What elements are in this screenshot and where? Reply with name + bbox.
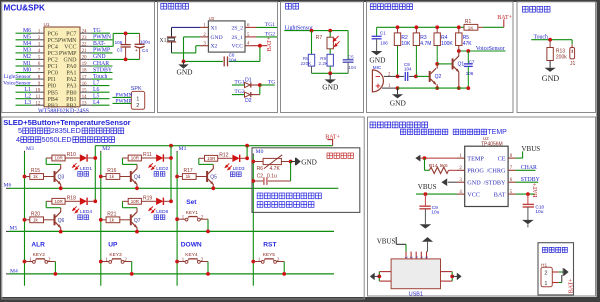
svg-text:VCC: VCC	[467, 191, 480, 198]
svg-text:TG: TG	[268, 79, 275, 85]
ground arrow up above USB	[422, 237, 433, 242]
resistor R16 1k	[99, 175, 103, 179]
wire U1 pin 16 net L7	[80, 85, 92, 87]
svg-text:2: 2	[544, 270, 547, 276]
led LED1	[65, 157, 80, 159]
svg-text:GND: GND	[177, 68, 194, 77]
ground GND under MIC pin1	[397, 88, 399, 94]
svg-text:Q7: Q7	[134, 218, 141, 224]
capacitor C7 106	[467, 51, 469, 64]
svg-text:+: +	[135, 48, 138, 53]
svg-text:14: 14	[82, 95, 87, 100]
svg-text:RST: RST	[263, 242, 276, 249]
wire LED cathode bus column3	[246, 146, 248, 158]
resistor R21 1k	[99, 218, 103, 222]
wire U1 pin 7 net M0	[16, 72, 32, 74]
resistor R4 100K	[434, 33, 440, 46]
svg-text:BAT-: BAT-	[93, 41, 105, 47]
svg-text:15: 15	[82, 88, 87, 93]
svg-text:PWMN: PWMN	[115, 92, 132, 98]
svg-text:1k: 1k	[109, 217, 115, 222]
svg-text:VBUS: VBUS	[522, 145, 541, 153]
svg-text:5050LED: 5050LED	[42, 135, 72, 144]
capacitor C5 104	[347, 31, 349, 60]
svg-text:LED6: LED6	[156, 209, 168, 215]
wire MIC pin2	[384, 75, 398, 77]
svg-text:5: 5	[18, 126, 22, 135]
ground GND oscillator	[183, 61, 185, 64]
svg-text:18: 18	[82, 69, 87, 74]
svg-text:PA0: PA0	[66, 64, 76, 70]
svg-text:PWMN: PWMN	[58, 38, 77, 44]
svg-text:D2: D2	[245, 98, 252, 104]
svg-text:10R: 10R	[55, 199, 64, 204]
svg-text:M3: M3	[26, 146, 34, 152]
svg-text:0.1u: 0.1u	[267, 173, 277, 179]
wire Q6 emitter to bus	[60, 228, 62, 232]
svg-text:M3: M3	[23, 48, 31, 54]
svg-text:PC1: PC1	[48, 64, 58, 70]
block frame MCU&SPK	[2, 2, 155, 113]
svg-text:R18: R18	[67, 195, 76, 201]
svg-text:L4: L4	[93, 100, 100, 106]
resistor R1 1K horizontal	[464, 24, 478, 30]
wire U1 pin 3 net M4	[16, 45, 32, 47]
svg-text:CE: CE	[498, 155, 506, 162]
svg-text:11: 11	[36, 95, 41, 100]
svg-text:GND: GND	[322, 83, 339, 92]
note 需要使用高精度电容	[257, 193, 321, 199]
wire column M2 vertical	[100, 151, 102, 153]
svg-text:13: 13	[82, 101, 87, 106]
svg-text:PWMP: PWMP	[93, 48, 110, 54]
svg-text:PROG: PROG	[467, 168, 484, 175]
wire KEY2 to bus	[54, 262, 56, 274]
svg-text:104: 104	[229, 58, 237, 63]
wire U3 pin2 GND down	[184, 36, 201, 38]
svg-text:3: 3	[415, 254, 419, 258]
wire D2 cathode up to TG node	[259, 85, 261, 95]
block frame SLED+buttons block	[2, 117, 364, 299]
wire U1 pin 22 net BAT-	[80, 45, 92, 47]
wire U1 pin 23 net PWMN	[80, 39, 92, 41]
ground GND touch	[545, 68, 556, 72]
svg-text:GND: GND	[542, 74, 560, 83]
wire Q5 collector link	[212, 164, 214, 168]
svg-text:/STDBY: /STDBY	[483, 179, 506, 186]
wire bottom bus sound block	[398, 87, 469, 89]
wire R3 bottom	[415, 46, 417, 77]
svg-text:TEMP: TEMP	[487, 129, 507, 136]
svg-text:MIC: MIC	[373, 65, 382, 70]
wire Touch	[531, 39, 572, 41]
net VoiceSensor wire	[459, 50, 506, 52]
wire U3 pin4 VCC to BAT+	[250, 45, 267, 47]
svg-text:DOWN: DOWN	[181, 242, 202, 249]
wire TEMP with stub arrow	[415, 155, 420, 162]
svg-text:R17: R17	[184, 168, 193, 174]
svg-text:STDBY: STDBY	[93, 67, 113, 73]
title 声音检测电路	[370, 4, 412, 10]
svg-text:10: 10	[36, 88, 41, 93]
svg-text:1k: 1k	[33, 217, 39, 222]
wire U1 pin 12 net L3	[16, 104, 32, 106]
svg-text:M2: M2	[102, 146, 110, 152]
capacitor C6 104	[223, 56, 225, 66]
wire Q4 emitter to bus	[136, 184, 138, 188]
screenshot dark frame edges	[0, 0, 600, 2]
resistor R12 10R	[199, 157, 205, 159]
svg-text:GND: GND	[301, 158, 317, 166]
svg-text:C1: C1	[380, 31, 386, 36]
svg-text:R16: R16	[107, 168, 116, 174]
label nuanbai	[78, 215, 89, 220]
wire Q2 collector to Q1 base	[437, 63, 452, 65]
svg-text:4: 4	[420, 254, 424, 258]
svg-text:U3: U3	[209, 16, 215, 21]
wire R20 to Q6 base	[44, 219, 56, 221]
svg-text:106: 106	[380, 41, 388, 46]
svg-text:R1: R1	[465, 19, 472, 25]
svg-text:PC4: PC4	[48, 44, 58, 50]
resistor R20 1k	[23, 218, 27, 222]
svg-text:106: 106	[466, 71, 474, 76]
transistor Q4	[130, 171, 131, 181]
svg-text:PC0: PC0	[48, 71, 58, 77]
svg-text:MCU&SPK: MCU&SPK	[4, 3, 45, 12]
ground arrow right of USB	[452, 275, 457, 277]
block frame light sensor 光感	[281, 2, 364, 113]
svg-text:23: 23	[82, 36, 87, 41]
svg-text:12: 12	[36, 101, 41, 106]
wire R2 bottom	[397, 46, 399, 77]
svg-text:TG1: TG1	[234, 79, 244, 85]
wire KEY4 to bus	[207, 262, 209, 274]
svg-text:LED2: LED2	[156, 166, 168, 172]
battery socket sub-box	[538, 243, 574, 295]
wire BAT+ LED anode rail	[95, 145, 332, 147]
svg-text:L3: L3	[25, 100, 32, 106]
wire X1 top to U3 pin1 (dark blue)	[172, 26, 201, 28]
wire R17 to Q5 base	[196, 176, 208, 178]
wire KEY1 to bus	[207, 219, 209, 231]
svg-text:1K: 1K	[468, 25, 475, 30]
ground arrow left of USB	[375, 275, 380, 277]
led LED2	[141, 157, 156, 159]
title 电池插座	[543, 247, 568, 252]
usb body USB1	[391, 259, 440, 289]
wire U1 pin 6 net M1	[16, 65, 32, 67]
svg-text:KEY5: KEY5	[263, 252, 276, 258]
resistor R17 1k	[175, 175, 179, 179]
svg-text:R15: R15	[31, 168, 40, 174]
wire U1 pin 13 net L4	[80, 104, 92, 106]
net flag VBUS at CE	[516, 157, 523, 159]
svg-text:R14: R14	[429, 163, 438, 169]
led LED4	[65, 200, 80, 202]
svg-text:100u: 100u	[140, 40, 151, 45]
svg-text:L6: L6	[93, 87, 100, 93]
usb pin 5 stub	[426, 252, 428, 259]
usb pin 2 stub	[410, 252, 412, 259]
transistor Q1	[452, 59, 453, 69]
wire U1 pin 14 net L5	[80, 98, 92, 100]
thermistor R6 4.7K	[251, 160, 255, 164]
svg-text:PA2: PA2	[66, 77, 76, 83]
transistor Q6	[54, 215, 55, 225]
usb shield pins right	[441, 271, 453, 273]
wire Q7 emitter to bus	[136, 228, 138, 232]
svg-text:10R: 10R	[131, 199, 140, 204]
svg-text:PB0: PB0	[66, 90, 76, 96]
label zhengbai	[154, 215, 165, 220]
svg-text:CHAR: CHAR	[521, 165, 537, 171]
svg-text:M5: M5	[10, 225, 18, 231]
svg-text:BAT: BAT	[494, 191, 506, 198]
svg-text:KEY4: KEY4	[185, 252, 198, 258]
resistor R13 200k	[549, 40, 551, 48]
wire R4 bottom	[436, 46, 438, 64]
svg-text:10u: 10u	[535, 209, 543, 215]
svg-text:PC3: PC3	[48, 51, 58, 57]
capacitor C1 106	[376, 27, 378, 36]
wire U1 pin 4 net M3	[16, 52, 32, 54]
svg-text:4.7M: 4.7M	[420, 41, 431, 47]
wire Q6 collector link	[60, 208, 62, 212]
wire U1 pin 21 net PWMP	[80, 52, 92, 54]
svg-text:TG: TG	[93, 28, 101, 34]
wire U1 pin 1 net M6	[16, 32, 32, 34]
svg-text:BAT+: BAT+	[568, 278, 574, 293]
wire R15 to Q3 base	[44, 176, 56, 178]
svg-text:1: 1	[405, 254, 409, 258]
svg-text:GND: GND	[467, 179, 481, 186]
wire column M1 vertical	[176, 151, 178, 153]
wire U1 pin 10 net L1	[16, 91, 32, 93]
svg-text:M0: M0	[256, 149, 264, 155]
svg-text:Q5: Q5	[210, 175, 217, 181]
wire H1 pin2 to gnd arrow	[552, 271, 558, 273]
wire TG2 from U3 pin5	[250, 36, 256, 38]
svg-text:Q4: Q4	[134, 175, 141, 181]
svg-text:Q3: Q3	[58, 175, 65, 181]
wire R5 bottom	[458, 46, 460, 52]
svg-text:GND: GND	[390, 99, 407, 108]
svg-text:PI0: PI0	[48, 84, 56, 90]
wire column M3 vertical	[24, 151, 26, 153]
wire U3 pin3 X2 to crystal bottom	[196, 45, 200, 47]
ground GND light sensor	[329, 73, 331, 79]
svg-text:M4: M4	[23, 41, 31, 47]
transistor Q7	[130, 215, 131, 225]
svg-text:R10: R10	[67, 152, 76, 158]
svg-text:47K: 47K	[463, 41, 473, 47]
svg-text:21: 21	[82, 49, 87, 54]
svg-text:PWMP: PWMP	[59, 51, 77, 57]
label caideng	[230, 172, 241, 177]
svg-text:Q2: Q2	[435, 74, 442, 80]
svg-text:Q1: Q1	[458, 61, 465, 67]
svg-text:PC6: PC6	[48, 31, 58, 37]
wire U1 pin 8 net LightSensor	[16, 78, 32, 80]
svg-text:C5: C5	[348, 54, 354, 59]
svg-text:R12: R12	[219, 152, 228, 158]
transistor Q3	[54, 171, 55, 181]
svg-text:BAT+: BAT+	[267, 36, 273, 51]
svg-text:KEY3: KEY3	[109, 252, 122, 258]
svg-text:Set: Set	[186, 199, 197, 206]
svg-text:4: 4	[16, 135, 20, 144]
resistor R14 5K6 zigzag	[424, 158, 426, 170]
svg-text:M0: M0	[23, 67, 31, 73]
ground GND under C10	[527, 207, 529, 220]
ground GND under C1	[371, 51, 382, 55]
wire U1 pin 18 net STDBY	[80, 72, 92, 74]
svg-text:1k: 1k	[186, 174, 192, 179]
svg-text:10u: 10u	[431, 210, 439, 216]
svg-text:ALR: ALR	[31, 242, 45, 249]
title 充电（电源）模块	[370, 122, 428, 128]
svg-text:STDBY: STDBY	[521, 177, 541, 183]
resistor R9 2.2K	[327, 54, 333, 66]
svg-text:R6: R6	[257, 166, 264, 172]
mcu U1 WT588F02KD-24SS	[44, 27, 80, 107]
svg-text:R21: R21	[107, 211, 116, 217]
wire U1 pin 2 net M5	[16, 39, 32, 41]
wire LED cathode bus column1	[94, 146, 96, 202]
svg-text:J1: J1	[570, 61, 576, 67]
svg-text:TG2: TG2	[265, 32, 275, 38]
label caideng	[78, 172, 89, 177]
svg-text:17: 17	[82, 75, 87, 80]
svg-text:WT588F02KD-24SS: WT588F02KD-24SS	[38, 109, 89, 115]
wire Q3 emitter to bus	[60, 184, 62, 188]
wire U1 pin 5 net M2	[16, 58, 32, 60]
wire GND rail to C6 and VCC riser	[184, 60, 223, 62]
wire R21 to Q7 base	[120, 219, 132, 221]
wire column M0 vertical	[252, 154, 254, 156]
svg-text:VBUS: VBUS	[418, 183, 437, 191]
note 阻值和电容值未定	[257, 202, 314, 208]
svg-text:L5: L5	[93, 94, 100, 100]
wire U1 pin 24 net TG	[80, 32, 92, 34]
svg-text:1: 1	[544, 281, 547, 287]
connector J1	[571, 40, 573, 45]
resistor R2 10K	[394, 33, 400, 46]
block frame sound detect 声音检测电路	[367, 2, 514, 113]
wire BAT pin to BAT+ flag	[516, 193, 535, 195]
capacitor C3 106	[125, 33, 127, 44]
svg-text:X1: X1	[160, 38, 167, 44]
svg-text:104: 104	[348, 65, 356, 70]
svg-text:PWMN: PWMN	[93, 35, 112, 41]
svg-text:C3: C3	[117, 48, 123, 53]
svg-text:L7: L7	[93, 80, 100, 86]
capacitor C10 10u	[527, 194, 529, 204]
svg-text:R20: R20	[31, 211, 40, 217]
temperature detect sub-box	[252, 148, 360, 213]
svg-text:104: 104	[404, 66, 412, 71]
wire Q7 collector link	[136, 208, 138, 212]
block frame touch key 触摸按键	[517, 2, 596, 113]
wire Q3 collector link	[60, 164, 62, 168]
svg-text:VoiceSensor: VoiceSensor	[476, 46, 505, 52]
junction dots C3	[124, 32, 128, 36]
svg-text:U1: U1	[44, 22, 50, 27]
title 触摸按键	[522, 6, 550, 12]
svg-text:VCC: VCC	[64, 44, 76, 50]
block frame oscillator 秒振信号	[158, 2, 278, 113]
svg-text:VoiceSensor: VoiceSensor	[3, 80, 31, 86]
resistor R15 1k	[23, 175, 27, 179]
wire H1 pin1 to BAT+	[552, 282, 558, 284]
svg-text:LightSensor: LightSensor	[4, 74, 31, 80]
svg-text:PI1: PI1	[48, 77, 56, 83]
usb pin 4 stub	[420, 252, 422, 259]
block frame charger block 充电	[368, 117, 596, 296]
svg-text:X2: X2	[211, 44, 218, 50]
resistor R3 4.7M	[413, 33, 419, 46]
led LED6	[141, 200, 156, 202]
svg-text:BAT+: BAT+	[497, 15, 512, 21]
wire U1 pin 19 net CHAR	[80, 65, 92, 67]
svg-text:LED3: LED3	[233, 166, 245, 172]
svg-text:GND: GND	[211, 35, 223, 41]
svg-text:M5: M5	[23, 35, 31, 41]
svg-text:C2: C2	[257, 173, 264, 179]
title 秒振信号	[161, 3, 189, 9]
svg-text:TG2: TG2	[234, 89, 244, 95]
svg-text:LED1: LED1	[80, 166, 92, 172]
svg-text:PWMP: PWMP	[115, 99, 131, 105]
svg-text:L2: L2	[25, 94, 32, 100]
svg-text:10R: 10R	[55, 156, 64, 161]
wire LightSensor top rail	[284, 30, 348, 32]
svg-text:U2: U2	[483, 136, 489, 141]
wire U1 pin 11 net L2	[16, 98, 32, 100]
svg-text:1k: 1k	[109, 174, 115, 179]
svg-text:16: 16	[82, 82, 87, 87]
usb pin 3 stub	[415, 252, 417, 259]
svg-text:106: 106	[115, 40, 123, 45]
wire MIC pin1	[382, 87, 398, 89]
power flag BAT+ sound block	[503, 19, 505, 27]
svg-text:200k: 200k	[556, 54, 567, 60]
svg-text:LED4: LED4	[80, 209, 92, 215]
transistor Q2	[429, 71, 430, 81]
capacitor C8 104	[398, 75, 405, 77]
svg-text:10R: 10R	[207, 156, 216, 161]
resistor R5 47K	[456, 33, 462, 46]
svg-text:USB1: USB1	[409, 291, 423, 297]
wire U1 pin 17 net Touch	[80, 78, 92, 80]
wire U1 pin 20 net GND	[80, 58, 92, 60]
capacitor C9 10u	[424, 194, 426, 206]
svg-text:GND: GND	[93, 54, 106, 60]
svg-text:GND: GND	[369, 56, 386, 65]
wire TG output	[260, 84, 275, 86]
svg-text:C4: C4	[142, 48, 148, 53]
svg-text:TEMP: TEMP	[467, 155, 484, 162]
wire TG1 from U3 pin6	[250, 26, 256, 28]
svg-text:UP: UP	[108, 242, 118, 249]
svg-text:L1: L1	[25, 87, 32, 93]
svg-text:VCC: VCC	[231, 44, 243, 50]
svg-text:PC5: PC5	[48, 38, 58, 44]
svg-text:PA1: PA1	[66, 71, 76, 77]
svg-text:2: 2	[136, 103, 139, 109]
svg-text:PA3: PA3	[66, 84, 76, 90]
